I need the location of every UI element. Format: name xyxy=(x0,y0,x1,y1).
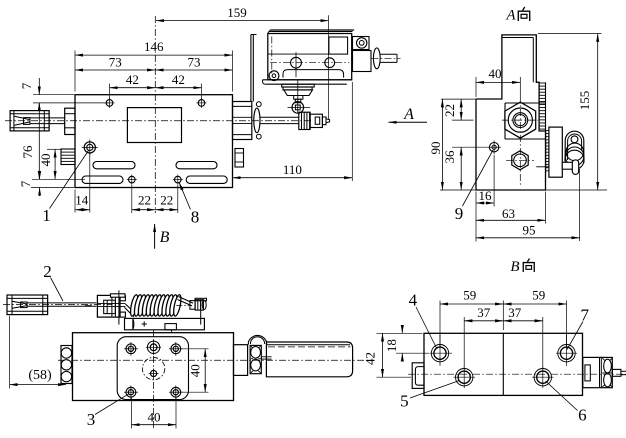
dim 40 right vertical xyxy=(181,348,209,350)
svg-text:37: 37 xyxy=(508,305,522,320)
B-view: centre divider xyxy=(502,333,504,395)
svg-text:14: 14 xyxy=(75,193,89,208)
A-view: serrated adjuster strip xyxy=(545,82,547,131)
svg-text:3: 3 xyxy=(87,410,96,429)
main view: plunger shaft to valve fitting xyxy=(260,116,299,118)
spring right hook xyxy=(179,297,194,304)
main view: pilot valve bell flange stack xyxy=(282,84,315,87)
svg-text:2: 2 xyxy=(43,262,52,281)
bottom view: body block xyxy=(73,333,234,401)
label 3 with leader xyxy=(95,394,129,415)
bottom view: bolt hole bottom-right xyxy=(171,387,181,397)
svg-text:73: 73 xyxy=(109,54,122,69)
dim 59 right xyxy=(503,303,566,305)
spring anchor post with cap xyxy=(195,298,206,301)
main view: box right terminal plate with circle xyxy=(353,37,370,50)
main view: body plate outline xyxy=(75,95,233,188)
B-view: hole item6 xyxy=(537,371,549,383)
dim (58) xyxy=(9,316,11,389)
dim 42 left xyxy=(109,84,111,99)
main view: vertical centerline xyxy=(154,16,156,213)
bottom view: hinge strip with rollers xyxy=(250,345,261,373)
A-view: hex boss pocket xyxy=(505,102,546,104)
spring coil xyxy=(129,294,139,317)
bottom view: bolt hole top-left item3 area xyxy=(126,344,136,354)
svg-text:7: 7 xyxy=(581,306,590,325)
A-view: big hex nut xyxy=(505,102,536,138)
spring axis ticks xyxy=(85,304,92,306)
label 5 with leader xyxy=(410,381,460,399)
svg-text:73: 73 xyxy=(188,54,201,69)
B-view: end pin xyxy=(612,369,621,376)
B-view: left bracket attachment xyxy=(412,363,424,389)
dim 95 A-view xyxy=(579,169,581,241)
main view: shaft boss on left edge xyxy=(65,108,75,134)
svg-text:7: 7 xyxy=(19,82,34,89)
bottom view: step block right xyxy=(234,345,248,376)
svg-text:42: 42 xyxy=(172,72,185,87)
svg-text:8: 8 xyxy=(191,208,200,227)
dim 37 left xyxy=(463,317,465,369)
bottom view: clevis fork (lower) xyxy=(7,295,48,315)
svg-text:90: 90 xyxy=(428,142,443,155)
A-view: coiled washers xyxy=(566,143,584,161)
B-view: axis centerline xyxy=(408,373,626,375)
A-view: hole item9 xyxy=(489,143,498,152)
svg-text:22: 22 xyxy=(138,193,151,208)
svg-text:22: 22 xyxy=(442,104,457,117)
dim 14 xyxy=(74,190,76,213)
bottom view: rounded mounting plate xyxy=(117,337,188,400)
main view: top mounting hole right xyxy=(198,100,205,107)
dim 90 A-view xyxy=(441,98,475,100)
svg-text:16: 16 xyxy=(479,188,493,203)
label 7 with leader xyxy=(567,322,583,350)
dim 16 A-view xyxy=(475,192,477,242)
svg-text:22: 22 xyxy=(160,193,173,208)
dim 36 A-view xyxy=(452,146,487,148)
dim 159 top xyxy=(328,15,330,119)
main view: flange ellipse xyxy=(254,108,260,133)
main view: bottom hole left of centre xyxy=(129,176,136,183)
main view: box axis phantom line xyxy=(270,62,349,64)
label 2 with leader xyxy=(51,278,64,302)
svg-text:76: 76 xyxy=(20,145,35,159)
main view: solenoid end block on right edge xyxy=(233,102,252,140)
main view: bottom hole item8 xyxy=(175,176,182,183)
B-view: hole item4 xyxy=(434,347,446,359)
svg-text:B: B xyxy=(160,229,170,246)
main view: window cutout rectangle xyxy=(127,108,181,143)
label 6 with leader xyxy=(546,381,578,411)
dim 37 right xyxy=(503,320,543,322)
dim 7 top-left xyxy=(33,94,74,96)
svg-text:1: 1 xyxy=(42,206,51,225)
base plate under spring xyxy=(125,318,205,329)
main view: box right connector block xyxy=(353,51,372,72)
svg-text:59: 59 xyxy=(532,287,545,302)
svg-text:95: 95 xyxy=(523,223,536,238)
bottom view: bolt hole bottom-left xyxy=(126,387,136,397)
svg-text:42: 42 xyxy=(126,72,139,87)
main view: lower serrated boss on left edge xyxy=(61,149,75,165)
dim 73 right xyxy=(155,69,232,71)
A-view: horseshoe clip xyxy=(565,131,584,163)
label 4 with leader xyxy=(416,307,437,349)
main view: box internal rounded hump xyxy=(283,70,344,78)
dim 76 xyxy=(38,103,40,179)
bottom view: solenoid cylinder xyxy=(266,342,352,377)
B-view: right attachment hinge block xyxy=(583,357,613,387)
svg-text:18: 18 xyxy=(384,339,399,352)
svg-text:B: B xyxy=(510,259,519,275)
A-view: second serrated strip xyxy=(546,130,549,132)
dim 42 right xyxy=(155,87,201,89)
A-view: small hex plug xyxy=(512,151,528,170)
bottom view: latch bracket body xyxy=(97,295,120,317)
svg-text:155: 155 xyxy=(577,91,592,111)
main view: box button circle right xyxy=(325,58,335,68)
svg-text:146: 146 xyxy=(144,39,164,54)
main view: valve fitting square body xyxy=(310,114,322,127)
bottom view: bolt hole top-right xyxy=(171,344,181,354)
main view: slotted hole upper-right xyxy=(176,162,217,169)
A-view: pin with rounded ends xyxy=(572,160,578,175)
main view: mounting bracket plate verticals xyxy=(250,35,252,102)
bottom view: rod through latch xyxy=(97,302,125,304)
svg-text:159: 159 xyxy=(227,5,247,20)
dim 59 left xyxy=(439,301,441,348)
main view: box bottom mounting plates xyxy=(263,79,353,81)
bottom view: large phantom circle xyxy=(142,357,164,379)
dim 40 A-view xyxy=(475,77,477,97)
dim 155 A-view xyxy=(538,33,602,35)
main view: slotted hole lower-left xyxy=(82,176,123,183)
svg-text:37: 37 xyxy=(477,305,491,320)
main view: pilot valve stem xyxy=(295,99,301,103)
svg-text:40: 40 xyxy=(188,364,203,377)
bottom view: vertical centerline xyxy=(153,330,155,429)
main view: box right shaft with collar xyxy=(373,48,380,69)
main view: pivot hole item1 (double circle) xyxy=(84,142,95,153)
B-view: block outline xyxy=(424,333,583,395)
svg-text:40: 40 xyxy=(148,409,161,424)
svg-text:(58): (58) xyxy=(28,368,52,383)
A-view: side bar of attachment xyxy=(549,127,562,177)
bottom view: latch right tabs xyxy=(120,296,125,301)
svg-text:4: 4 xyxy=(409,291,418,310)
label 1 with leader xyxy=(50,151,89,209)
main view: clevis fork left end xyxy=(10,111,49,131)
svg-text:59: 59 xyxy=(463,287,476,302)
dim 7 bottom-left xyxy=(32,178,85,180)
main view: box inner terminal recess xyxy=(329,37,348,54)
A-view bottom extension line xyxy=(440,189,607,191)
svg-text:6: 6 xyxy=(578,406,587,425)
dim 146 xyxy=(74,51,76,92)
main view: top mounting hole left xyxy=(106,100,113,107)
svg-text:110: 110 xyxy=(283,162,302,177)
view arrow A xyxy=(389,121,428,123)
bottom view: centre hole xyxy=(151,370,157,376)
dim 22 A-view xyxy=(452,119,474,121)
A-view: tower inner double lines xyxy=(502,37,533,39)
B-view: hole item5 xyxy=(458,371,470,383)
main view: micro-switch box outline xyxy=(270,29,354,31)
main view: link rod xyxy=(30,117,65,119)
dim 40 left xyxy=(47,148,62,150)
svg-text:A: A xyxy=(403,106,414,123)
dim 42 B-view xyxy=(377,332,423,334)
dim 73 left xyxy=(75,69,155,71)
bottom view: hinge arch xyxy=(248,335,266,344)
main view: slotted hole lower-right xyxy=(186,176,227,183)
dim 22 left xyxy=(131,185,133,213)
svg-text:9: 9 xyxy=(455,204,464,223)
main view: box screw bottom-left (double circle) xyxy=(269,71,279,81)
svg-text:A: A xyxy=(505,8,516,24)
svg-text:40: 40 xyxy=(489,66,502,81)
main view: valve fitting tip xyxy=(322,117,326,125)
bottom view: left hinge strip with rollers xyxy=(61,346,72,384)
svg-text:5: 5 xyxy=(400,392,409,411)
bottom view: release rod xyxy=(27,302,96,304)
A-view: hex centerlines xyxy=(519,96,521,186)
main view: ball joint under pilot valve xyxy=(292,102,304,114)
main view: valve fitting ringed nut xyxy=(299,112,310,129)
main view: small clamp tab on right edge xyxy=(235,149,244,168)
svg-text:7: 7 xyxy=(18,180,33,187)
bottom view: latch pin with cap xyxy=(111,294,126,297)
svg-text:40: 40 xyxy=(38,154,53,167)
label 8 with leader xyxy=(179,182,191,209)
label 9 with leader xyxy=(463,150,494,206)
dim 18 B-view xyxy=(396,352,429,354)
svg-text:63: 63 xyxy=(502,206,515,221)
bottom view: bolt top-centre xyxy=(147,341,159,353)
dim 40 bottom xyxy=(131,398,133,429)
view arrow B xyxy=(154,224,156,249)
bottom view: axis centerline xyxy=(58,359,372,361)
A-view: block outline with tower xyxy=(476,35,546,190)
main view: slotted hole upper-left xyxy=(93,162,135,169)
svg-text:42: 42 xyxy=(363,352,378,365)
dim 63 A-view xyxy=(545,192,547,224)
main view: horizontal axis centerline xyxy=(5,120,312,122)
A-view: clamp foot xyxy=(562,162,574,169)
dim 22 right xyxy=(155,209,178,211)
svg-text:36: 36 xyxy=(442,150,457,164)
spring anchor block xyxy=(190,301,195,310)
main view: box button circle left with stem xyxy=(291,57,302,68)
B-view: hole item7 xyxy=(560,347,572,359)
dim 110 xyxy=(351,82,353,181)
bottom view: crank link to spring xyxy=(125,304,136,314)
